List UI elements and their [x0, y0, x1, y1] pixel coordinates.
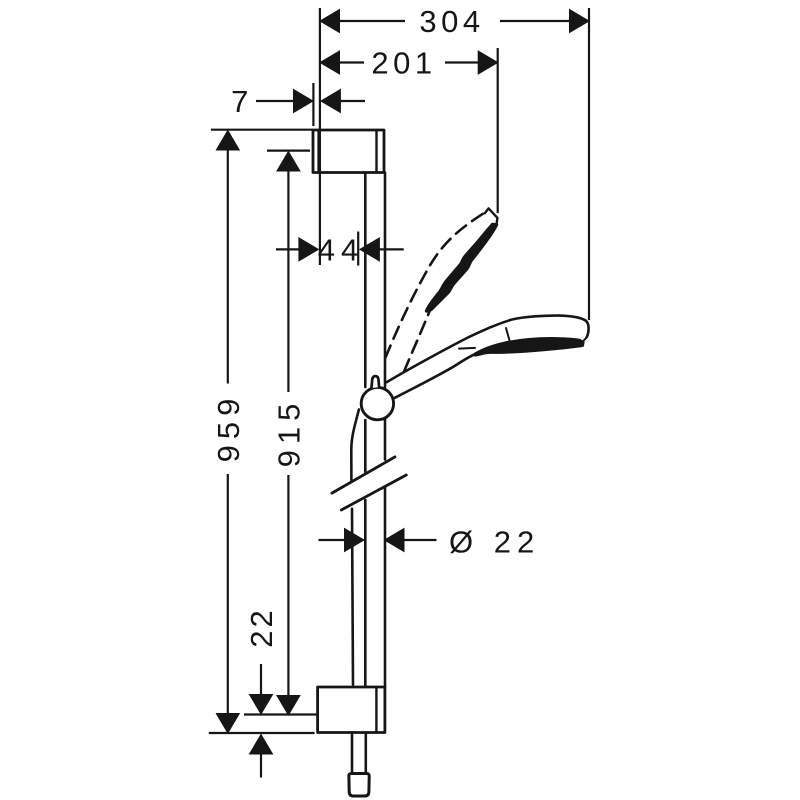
pivoted head tip cap: [485, 208, 498, 224]
dashed pivoted handle lower curve: [404, 307, 432, 372]
hose below bracket: [351, 733, 354, 774]
dimension 22 vertical (bottom left): [260, 664, 262, 695]
extension line 915 top: [267, 150, 310, 152]
dimension diameter 22: [319, 539, 345, 541]
svg-text:44: 44: [318, 232, 364, 267]
break mark diagonals: [332, 457, 395, 493]
head right edge: [586, 321, 589, 338]
dimension 201 arrows: [320, 51, 340, 74]
dimension 304 line: [320, 20, 405, 22]
head bottom rim right: [583, 338, 587, 343]
glide holder ball: [361, 387, 393, 419]
extension line top of rail: [211, 129, 313, 131]
head spray face band: [474, 338, 584, 355]
rail right edge: [384, 173, 387, 388]
svg-text:Ø 22: Ø 22: [449, 525, 540, 560]
dimension texts: [211, 4, 540, 648]
svg-text:915: 915: [271, 398, 306, 468]
hose nut: [349, 774, 369, 797]
dimension 959 vertical: [216, 131, 239, 151]
head rim line left: [459, 347, 475, 350]
wall bracket top: [313, 130, 384, 173]
pivoted head spray crescent: [427, 225, 497, 312]
handle lower edge: [393, 355, 474, 399]
dimension 304 arrows: [320, 10, 340, 33]
rail left edge: [364, 173, 367, 388]
extension line right of 201: [497, 48, 499, 213]
dimension 915 vertical: [277, 152, 300, 172]
dimension 7 leader and arrows: [256, 100, 294, 102]
handle upper edge: [387, 337, 471, 383]
extension line right of 304: [588, 8, 590, 320]
svg-text:22: 22: [244, 607, 279, 647]
extension line wall (left, for 304/201/7/44): [319, 8, 321, 265]
extension line bottom: [209, 732, 315, 734]
dimension 44: [276, 248, 299, 250]
svg-text:201: 201: [371, 46, 436, 81]
extension line mid (915 bottom / 22 top): [244, 713, 318, 715]
svg-text:7: 7: [231, 84, 253, 119]
hose along rail: [351, 410, 359, 481]
holder knob: [371, 376, 379, 388]
dimension 201 line: [320, 61, 364, 63]
head face tick: [506, 328, 511, 344]
wall bracket bottom: [318, 687, 385, 733]
svg-text:304: 304: [419, 4, 484, 39]
svg-text:959: 959: [211, 393, 246, 463]
head top edge: [470, 316, 586, 337]
dashed pivoted handle upper curve: [386, 212, 487, 358]
